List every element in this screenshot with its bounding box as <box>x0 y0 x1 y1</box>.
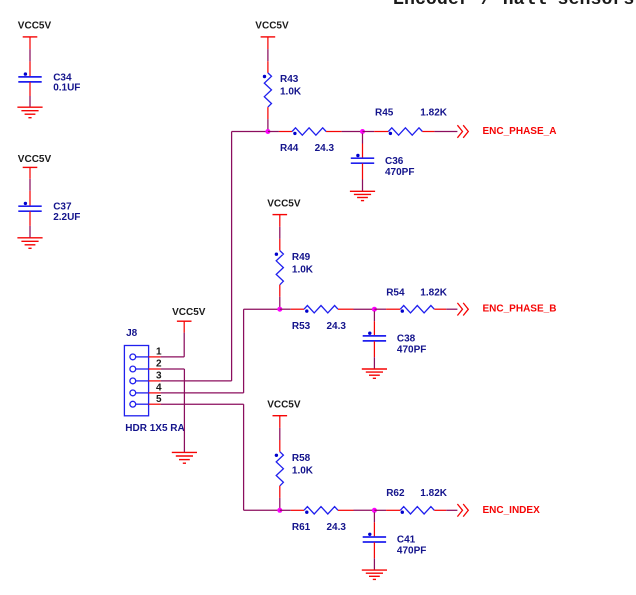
svg-text:2: 2 <box>156 359 162 370</box>
wire VCC5V to C37 <box>29 167 31 206</box>
wire J8 pin 1 to VCC5V <box>161 321 185 357</box>
svg-text:24.3: 24.3 <box>327 522 347 533</box>
pin 1 of J8 <box>149 347 162 358</box>
svg-text:R45: R45 <box>375 108 394 119</box>
power VCC5V (C34 branch) <box>18 21 52 37</box>
power VCC5V (R43 branch) <box>255 21 289 37</box>
power VCC5V (R49 branch) <box>267 198 301 214</box>
wire J8 pin 5 to ENC_INDEX node <box>161 404 244 510</box>
wire J8 to node (ENC_INDEX) <box>244 509 280 511</box>
wire J8 pin 4 to ENC_PHASE_B node <box>161 309 244 393</box>
wire VCC5V to R58 <box>279 416 281 452</box>
ground (J8 pin 2) <box>172 452 197 463</box>
svg-text:2.2UF: 2.2UF <box>53 212 80 223</box>
power VCC5V (J8 pin 1) <box>172 307 206 321</box>
capacitor C41 470PF <box>363 533 427 557</box>
pin 3 of J8 <box>149 371 162 382</box>
svg-text:24.3: 24.3 <box>315 143 335 154</box>
wire node to R44 <box>268 131 292 133</box>
node junction ENC_INDEX 2 <box>372 508 377 513</box>
node junction ENC_PHASE_A 2 <box>360 129 365 134</box>
svg-text:R49: R49 <box>292 252 311 263</box>
wire VCC5V to R49 <box>279 215 281 251</box>
wire R61 to node 2 <box>338 509 374 511</box>
svg-text:1.0K: 1.0K <box>280 87 302 98</box>
power VCC5V (R58 branch) <box>267 399 301 415</box>
wire node 2 to C36 <box>362 134 364 158</box>
svg-text:5: 5 <box>156 394 162 405</box>
svg-text:VCC5V: VCC5V <box>18 21 52 32</box>
svg-text:C38: C38 <box>397 334 416 345</box>
pin 4 of J8 <box>149 383 162 394</box>
svg-text:R58: R58 <box>292 453 311 464</box>
node junction ENC_PHASE_B 2 <box>372 307 377 312</box>
svg-text:R44: R44 <box>280 143 299 154</box>
resistor R44 24.3 <box>280 128 335 154</box>
svg-text:R54: R54 <box>386 288 405 299</box>
wire R44 to node 2 <box>326 131 362 133</box>
wire R54 to off-page <box>434 308 457 310</box>
resistor R43 1.0K <box>263 73 302 107</box>
svg-text:ENC_PHASE_B: ENC_PHASE_B <box>483 304 557 315</box>
svg-text:C36: C36 <box>385 156 404 167</box>
node junction ENC_PHASE_B 1 <box>277 307 282 312</box>
ground (C37) <box>17 238 42 249</box>
svg-text:VCC5V: VCC5V <box>255 21 289 32</box>
wire C38 to ground <box>373 341 375 369</box>
ground (C41) <box>362 570 387 579</box>
wire VCC5V to C34 <box>29 37 31 77</box>
wire node 2 to R45 <box>363 131 389 133</box>
svg-text:HDR 1X5 RA: HDR 1X5 RA <box>125 423 184 434</box>
wire VCC5V to R43 <box>267 37 269 73</box>
wire J8 to node (ENC_PHASE_A) <box>232 131 268 133</box>
svg-text:1.0K: 1.0K <box>292 466 314 477</box>
wire J8 pin 3 to ENC_PHASE_A node <box>161 132 232 381</box>
connector J8 HDR 1X5 RA <box>124 328 184 434</box>
off-page connector ENC_PHASE_B <box>457 303 556 316</box>
svg-text:470PF: 470PF <box>397 546 426 557</box>
svg-text:1.82K: 1.82K <box>420 488 447 499</box>
svg-text:1.0K: 1.0K <box>292 264 314 275</box>
capacitor C36 470PF <box>351 154 415 178</box>
svg-text:470PF: 470PF <box>385 167 414 178</box>
off-page connector ENC_PHASE_A <box>457 125 556 138</box>
svg-text:24.3: 24.3 <box>327 321 347 332</box>
wire J8 to node (ENC_PHASE_B) <box>244 308 280 310</box>
ground (C36) <box>350 191 375 200</box>
wire node to R53 <box>280 308 304 310</box>
svg-text:1.82K: 1.82K <box>420 288 447 299</box>
svg-text:ENC_PHASE_A: ENC_PHASE_A <box>483 126 557 137</box>
wire R49 to node <box>279 285 281 309</box>
svg-text:3: 3 <box>156 371 162 382</box>
svg-text:R62: R62 <box>386 488 405 499</box>
resistor R54 1.82K <box>386 288 448 313</box>
svg-text:VCC5V: VCC5V <box>267 198 301 209</box>
resistor R61 24.3 <box>292 507 347 533</box>
svg-text:1.82K: 1.82K <box>420 108 447 119</box>
capacitor C37 2.2UF <box>18 202 80 223</box>
wire node to R61 <box>280 509 304 511</box>
wire R62 to off-page <box>434 509 457 511</box>
wire node 2 to C41 <box>373 512 375 536</box>
capacitor C34 0.1UF <box>18 72 80 93</box>
ground (C34) <box>17 107 42 118</box>
svg-text:470PF: 470PF <box>397 345 426 356</box>
svg-text:VCC5V: VCC5V <box>172 307 206 318</box>
capacitor C38 470PF <box>363 332 427 356</box>
wire J8 pin 2 to ground <box>161 369 185 452</box>
wire C37 to ground <box>29 212 31 238</box>
wire R53 to node 2 <box>338 308 374 310</box>
svg-text:Encoder / Hall sensors con: Encoder / Hall sensors con <box>393 0 636 10</box>
off-page connector ENC_INDEX <box>457 504 540 517</box>
wire R45 to off-page <box>422 131 457 133</box>
svg-text:1: 1 <box>156 347 162 358</box>
wire R43 to node <box>267 107 269 131</box>
node junction ENC_PHASE_A 1 <box>265 129 270 134</box>
resistor R45 1.82K <box>375 108 448 136</box>
pin 2 of J8 <box>149 359 162 370</box>
node junction ENC_INDEX 1 <box>277 508 282 513</box>
svg-text:VCC5V: VCC5V <box>267 399 301 410</box>
svg-text:VCC5V: VCC5V <box>18 154 52 165</box>
resistor R49 1.0K <box>275 251 314 285</box>
wire node 2 to C38 <box>373 311 375 335</box>
power VCC5V (C37 branch) <box>18 154 52 168</box>
svg-text:0.1UF: 0.1UF <box>53 83 80 94</box>
ground (C38) <box>362 369 387 378</box>
wire C41 to ground <box>373 542 375 570</box>
wire R58 to node <box>279 486 281 510</box>
resistor R58 1.0K <box>275 452 314 486</box>
wire C36 to ground <box>362 164 364 192</box>
svg-text:R61: R61 <box>292 522 311 533</box>
svg-text:R43: R43 <box>280 74 299 85</box>
pin 5 of J8 <box>149 394 162 405</box>
svg-text:J8: J8 <box>126 328 138 339</box>
wire node 2 to R62 <box>374 509 400 511</box>
wire C34 to ground <box>29 82 31 107</box>
svg-text:C41: C41 <box>397 535 416 546</box>
resistor R62 1.82K <box>386 488 448 514</box>
svg-text:ENC_INDEX: ENC_INDEX <box>483 505 541 516</box>
wire node 2 to R54 <box>374 308 400 310</box>
svg-text:R53: R53 <box>292 321 311 332</box>
svg-text:4: 4 <box>156 383 162 394</box>
resistor R53 24.3 <box>292 306 347 332</box>
